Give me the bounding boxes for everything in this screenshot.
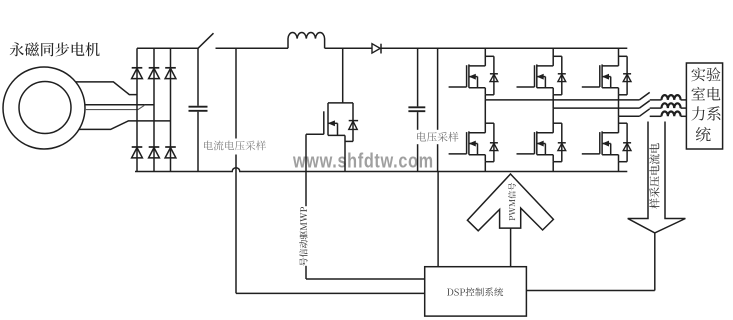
svg-text:www.shfdtw.com: www.shfdtw.com [292, 149, 434, 172]
